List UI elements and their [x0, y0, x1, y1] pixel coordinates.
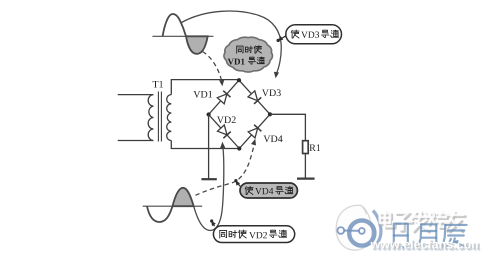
transformer T1 primary winding [148, 95, 153, 141]
waveform negative half (bottom sine) [147, 206, 173, 222]
watermark logo ring [349, 220, 374, 245]
junction dot on VD2 leader [210, 219, 213, 222]
resistor R1 [303, 141, 309, 154]
waveform positive half shaded (bottom sine) [173, 188, 194, 206]
waveform axis (top sine) [152, 35, 213, 37]
wire: left node down to ground [208, 115, 210, 180]
node: bridge right junction [268, 112, 272, 116]
callout stadium: makes VD3 conduct [286, 25, 342, 44]
ground (left) [201, 178, 216, 180]
watermark url text [373, 242, 481, 251]
wire: R1 bottom to ground [304, 154, 306, 179]
node: bridge bottom junction [237, 146, 241, 150]
node: bridge left junction [207, 112, 211, 116]
label VD3 [262, 89, 281, 96]
watermark logo node left [337, 227, 344, 234]
label VD2 [217, 116, 236, 123]
leader arrow from VD4 stadium [238, 184, 240, 187]
diode VD2 [218, 125, 228, 135]
junction dot on VD3 leader [277, 39, 280, 42]
watermark logo link line [343, 230, 362, 232]
wire: bridge edge bottom-left [209, 115, 240, 149]
callout stadium: simultaneously makes VD2 conduct [213, 226, 294, 243]
label T1 [153, 81, 163, 88]
transformer T1 core [158, 92, 161, 142]
label VD1 [193, 91, 212, 98]
wire: primary bottom lead [118, 140, 154, 142]
diode VD3 [248, 91, 258, 101]
leader arrow from VD2 stadium [213, 224, 215, 227]
wire: bridge edge top-right [239, 80, 270, 114]
watermark white embossed brand text [382, 215, 392, 225]
wire: secondary bottom to bridge bottom node [171, 141, 239, 149]
waveform axis (bottom sine) [143, 205, 203, 207]
waveform positive half (top sine) [163, 14, 186, 36]
ground (right) [297, 178, 315, 180]
label VD4 [263, 135, 282, 142]
wire: bridge edge bottom-right [239, 114, 270, 148]
transformer T1 secondary winding [167, 95, 172, 141]
label R1 [310, 144, 321, 151]
wire: right node to R1 [270, 114, 305, 140]
watermark logo node center [359, 228, 365, 234]
wire: primary top lead [118, 94, 154, 96]
annotation curve: negative half to VD1 (dashed arrow) [203, 52, 222, 80]
node: bridge top junction [237, 78, 241, 82]
wire: secondary top to bridge top node [171, 80, 239, 95]
leader arrow from VD3 stadium [281, 36, 286, 39]
watermark logo teardrop [336, 205, 372, 250]
callout cloud: simultaneously makes VD1 conduct [224, 37, 273, 72]
annotation curve: bottom wave to VD2 (solid arrow) [194, 146, 224, 231]
annotation curve: bottom positive half to VD4 (dashed arrow) [196, 144, 255, 196]
watermark logo swoosh [373, 211, 381, 248]
annotation curve: positive half to bridge (solid arrow) [182, 11, 282, 74]
watermark blue characters [394, 224, 408, 248]
waveform negative half shaded (top sine) [186, 36, 208, 54]
callout stadium: makes VD4 conduct [240, 183, 297, 198]
diode VD1 [217, 94, 227, 104]
diode VD4 [248, 128, 258, 138]
junction dot on VD4 leader [234, 179, 237, 182]
wire: bridge edge top-left [209, 80, 239, 114]
